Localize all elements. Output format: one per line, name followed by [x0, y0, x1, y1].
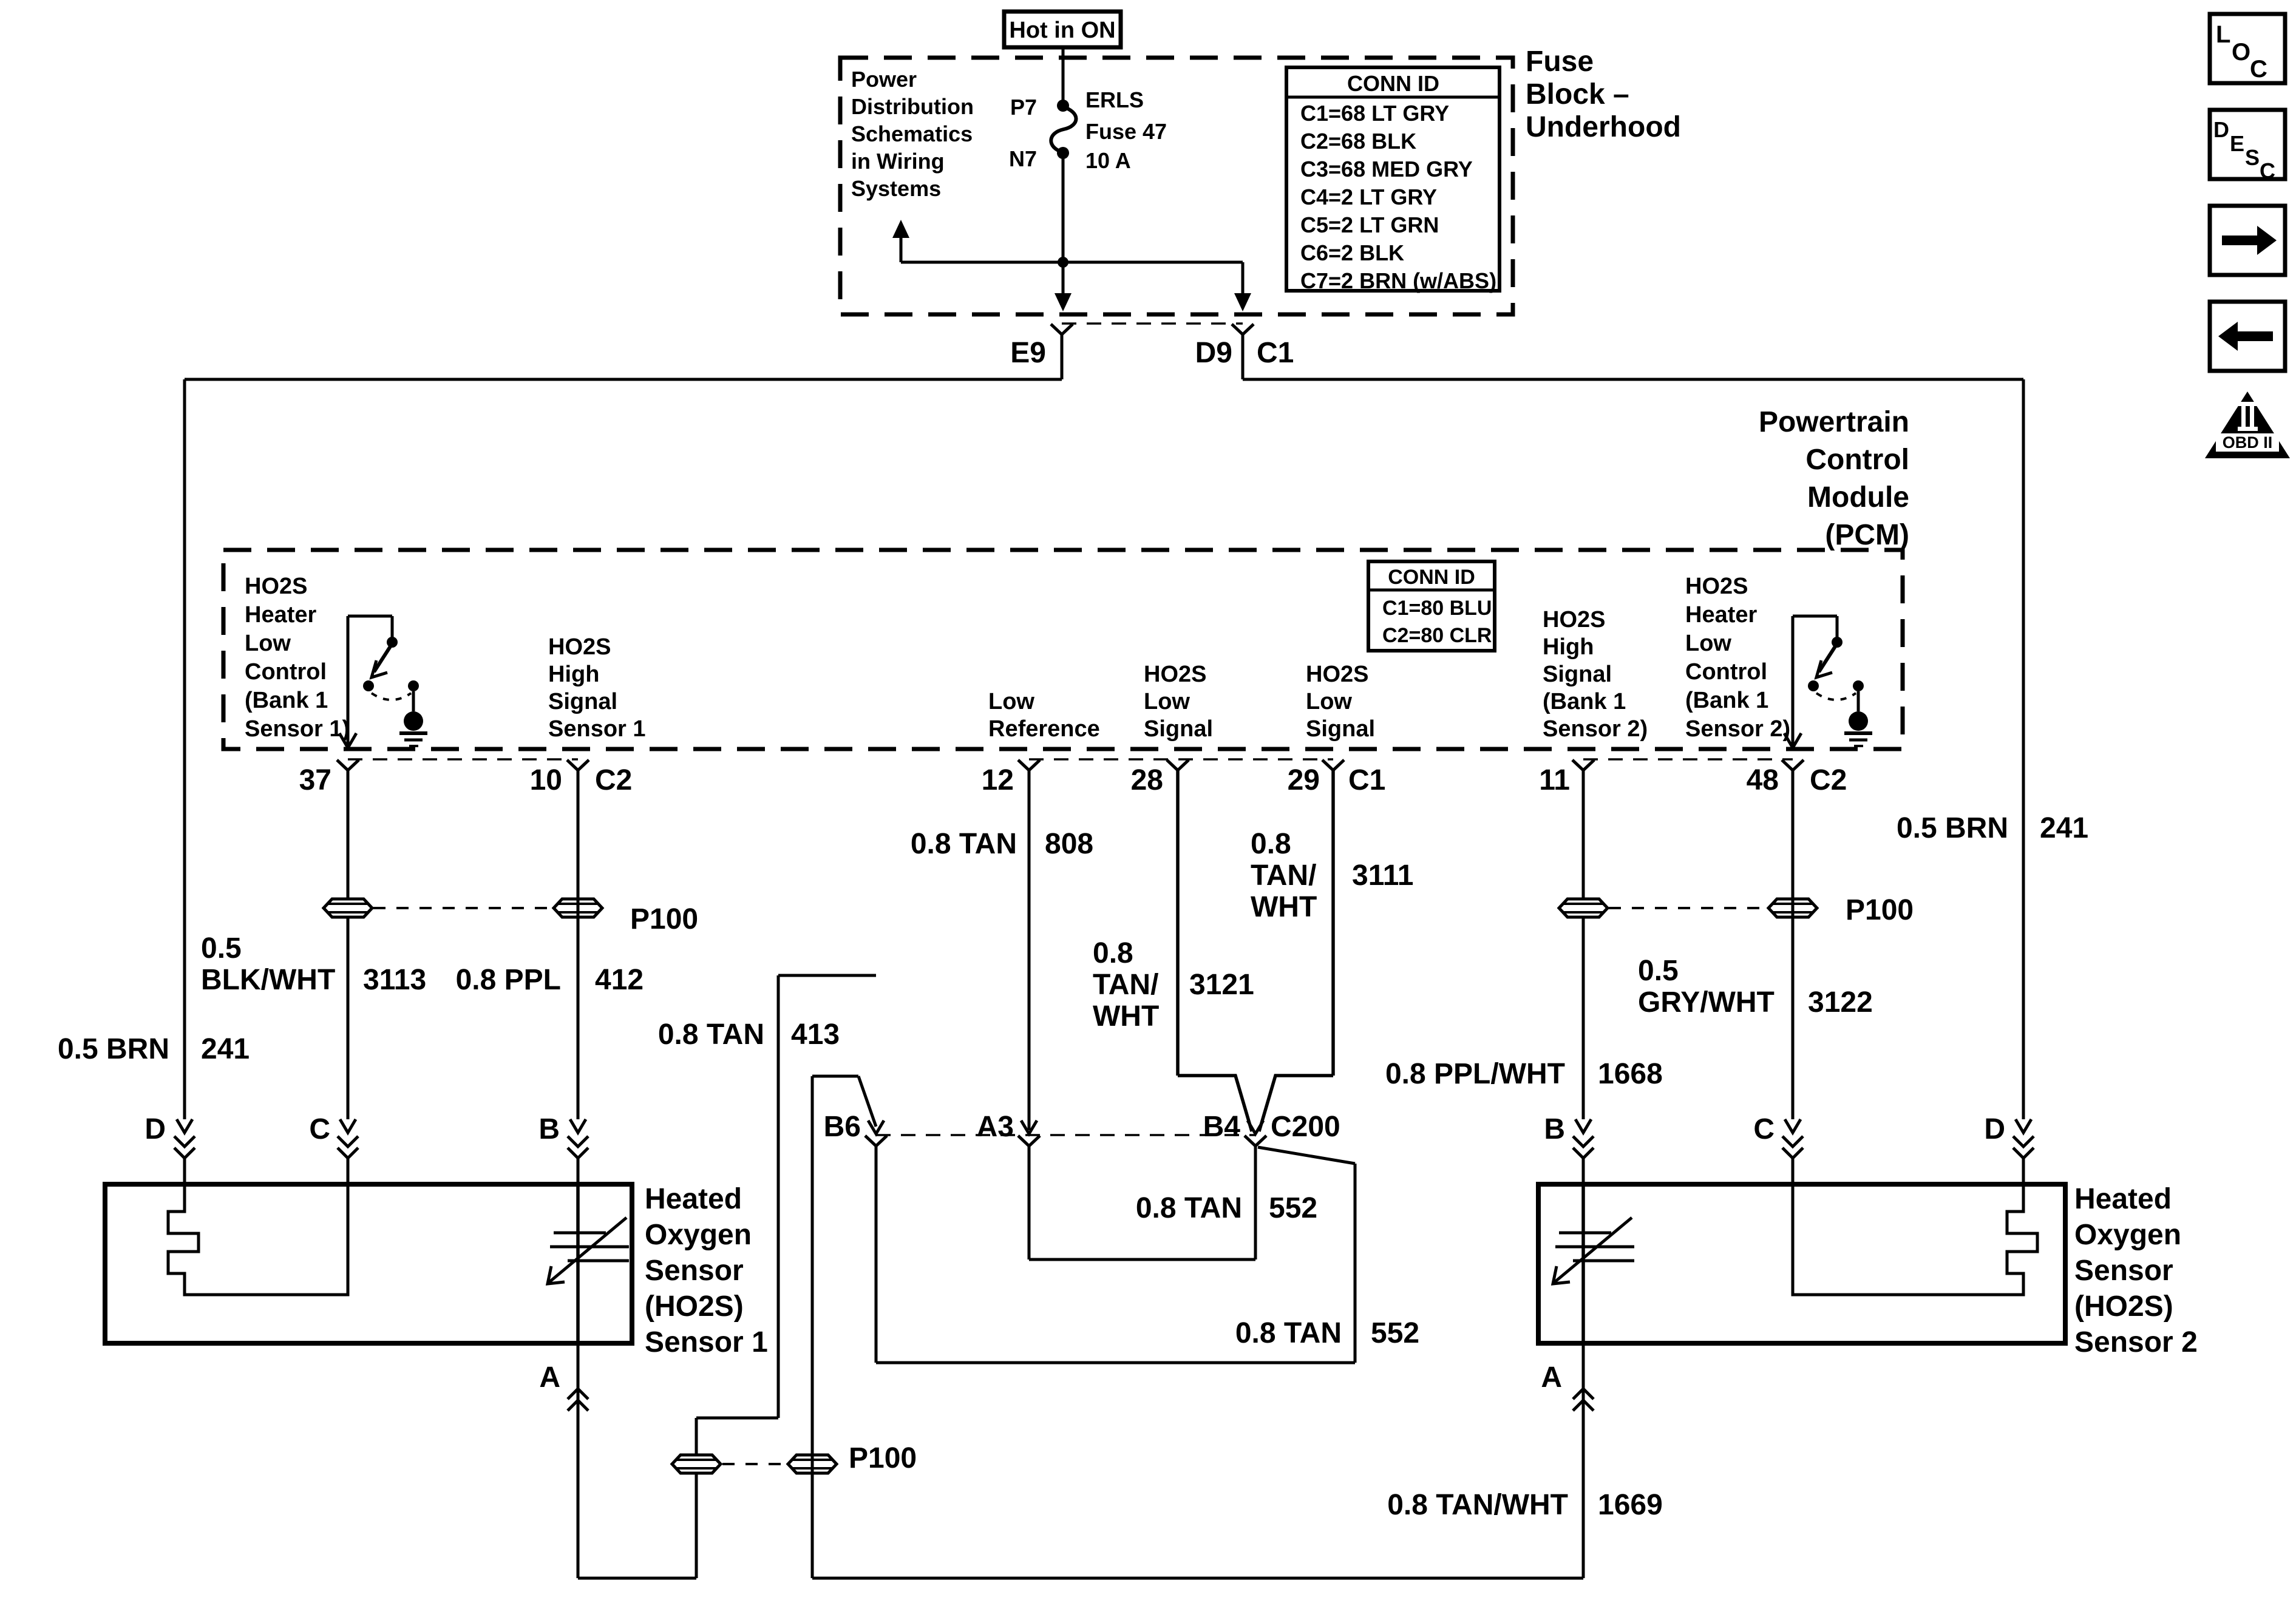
svg-text:B4: B4: [1203, 1111, 1241, 1143]
svg-text:(Bank 1: (Bank 1: [1685, 688, 1768, 713]
svg-text:3113: 3113: [363, 964, 426, 996]
svg-text:HO2S: HO2S: [245, 574, 307, 599]
svg-text:Sensor 1: Sensor 1: [645, 1326, 768, 1358]
svg-text:O: O: [2232, 39, 2250, 66]
svg-text:0.8 TAN/WHT: 0.8 TAN/WHT: [1387, 1489, 1568, 1521]
svg-text:B6: B6: [824, 1111, 861, 1143]
svg-text:Block –: Block –: [1526, 78, 1629, 110]
svg-text:S: S: [2245, 145, 2260, 170]
svg-text:Control: Control: [245, 659, 327, 685]
svg-text:37: 37: [299, 764, 331, 796]
svg-text:P100: P100: [849, 1442, 917, 1474]
svg-text:C1: C1: [1257, 337, 1294, 369]
svg-text:Control: Control: [1805, 444, 1909, 476]
svg-text:C: C: [1753, 1113, 1775, 1145]
svg-text:HO2S: HO2S: [1543, 607, 1605, 632]
svg-text:D9: D9: [1195, 337, 1232, 369]
svg-text:C7=2 BRN (w/ABS): C7=2 BRN (w/ABS): [1300, 268, 1496, 293]
svg-text:48: 48: [1747, 764, 1779, 796]
svg-text:0.5 BRN: 0.5 BRN: [1897, 812, 2008, 844]
svg-text:Reference: Reference: [988, 716, 1100, 742]
svg-text:0.5: 0.5: [1638, 955, 1679, 987]
svg-text:Underhood: Underhood: [1526, 111, 1681, 143]
svg-text:1668: 1668: [1598, 1058, 1663, 1090]
svg-text:0.8 TAN: 0.8 TAN: [1136, 1192, 1242, 1224]
svg-text:C2=80 CLR: C2=80 CLR: [1382, 624, 1492, 647]
svg-text:10 A: 10 A: [1085, 148, 1131, 173]
svg-text:Signal: Signal: [1306, 716, 1375, 742]
svg-text:Sensor: Sensor: [645, 1255, 744, 1287]
svg-text:E: E: [2230, 131, 2244, 156]
svg-text:28: 28: [1131, 764, 1163, 796]
svg-text:552: 552: [1269, 1192, 1317, 1224]
svg-text:HO2S: HO2S: [1144, 662, 1206, 687]
svg-text:TAN/: TAN/: [1251, 859, 1316, 892]
svg-text:0.5 BRN: 0.5 BRN: [58, 1033, 169, 1065]
svg-text:Fuse: Fuse: [1526, 46, 1594, 78]
svg-text:552: 552: [1371, 1317, 1419, 1349]
svg-text:3121: 3121: [1189, 969, 1254, 1001]
svg-text:C: C: [2260, 158, 2275, 183]
svg-text:413: 413: [791, 1019, 840, 1051]
svg-text:BLK/WHT: BLK/WHT: [201, 964, 335, 996]
svg-text:D: D: [1984, 1113, 2005, 1145]
svg-text:1669: 1669: [1598, 1489, 1663, 1521]
svg-text:GRY/WHT: GRY/WHT: [1638, 986, 1775, 1019]
svg-text:Heater: Heater: [1685, 602, 1757, 628]
svg-text:HO2S: HO2S: [1306, 662, 1368, 687]
svg-text:3111: 3111: [1352, 859, 1413, 892]
svg-text:808: 808: [1045, 828, 1093, 860]
svg-text:0.8 TAN: 0.8 TAN: [911, 828, 1017, 860]
svg-text:29: 29: [1288, 764, 1320, 796]
svg-text:12: 12: [982, 764, 1014, 796]
svg-text:Control: Control: [1685, 659, 1767, 685]
svg-text:E9: E9: [1010, 337, 1046, 369]
svg-text:D: D: [2213, 117, 2229, 142]
svg-text:A: A: [539, 1361, 560, 1394]
svg-text:Sensor 2): Sensor 2): [1685, 716, 1790, 742]
svg-text:Sensor 2: Sensor 2: [2074, 1326, 2198, 1358]
svg-text:10: 10: [530, 764, 562, 796]
svg-text:Low: Low: [988, 689, 1034, 714]
svg-text:(HO2S): (HO2S): [2074, 1290, 2173, 1323]
svg-text:Oxygen: Oxygen: [645, 1219, 752, 1251]
svg-text:Fuse 47: Fuse 47: [1085, 119, 1167, 144]
svg-text:0.8: 0.8: [1251, 828, 1291, 860]
svg-text:C3=68 MED GRY: C3=68 MED GRY: [1300, 157, 1473, 181]
svg-text:0.5: 0.5: [201, 932, 242, 964]
svg-text:CONN ID: CONN ID: [1347, 71, 1439, 96]
svg-text:High: High: [548, 662, 599, 687]
svg-text:C: C: [309, 1113, 330, 1145]
svg-text:Low: Low: [1685, 631, 1731, 656]
svg-text:Schematics: Schematics: [851, 121, 973, 146]
svg-text:Low: Low: [245, 631, 291, 656]
svg-text:C1=80 BLU: C1=80 BLU: [1382, 597, 1492, 620]
svg-text:412: 412: [595, 964, 644, 996]
svg-text:C200: C200: [1271, 1111, 1340, 1143]
svg-text:C5=2 LT GRN: C5=2 LT GRN: [1300, 212, 1439, 237]
svg-text:3122: 3122: [1808, 986, 1873, 1019]
svg-text:Signal: Signal: [1543, 662, 1612, 687]
svg-text:0.8 PPL: 0.8 PPL: [456, 964, 561, 996]
svg-text:Distribution: Distribution: [851, 94, 974, 119]
svg-text:Powertrain: Powertrain: [1759, 406, 1909, 438]
svg-text:0.8: 0.8: [1093, 937, 1133, 969]
svg-text:(Bank 1: (Bank 1: [1543, 689, 1626, 714]
svg-text:Sensor 2): Sensor 2): [1543, 716, 1648, 742]
svg-text:P100: P100: [1846, 894, 1914, 926]
svg-text:in Wiring: in Wiring: [851, 149, 945, 174]
svg-text:C1=68 LT GRY: C1=68 LT GRY: [1300, 101, 1449, 126]
svg-text:C2: C2: [1810, 764, 1847, 796]
svg-text:Sensor: Sensor: [2074, 1255, 2173, 1287]
svg-text:(Bank 1: (Bank 1: [245, 688, 328, 713]
svg-text:OBD II: OBD II: [2223, 433, 2273, 452]
svg-text:WHT: WHT: [1251, 891, 1317, 923]
svg-text:Hot in ON: Hot in ON: [1009, 18, 1115, 43]
svg-text:Heater: Heater: [245, 602, 316, 628]
svg-text:C1: C1: [1348, 764, 1385, 796]
svg-text:Low: Low: [1306, 689, 1352, 714]
svg-text:Sensor 1): Sensor 1): [245, 716, 350, 742]
svg-text:P7: P7: [1010, 95, 1037, 120]
svg-text:Module: Module: [1807, 481, 1909, 514]
svg-text:11: 11: [1539, 764, 1570, 796]
svg-text:L: L: [2216, 21, 2230, 48]
svg-text:Heated: Heated: [645, 1183, 742, 1215]
svg-text:Signal: Signal: [1144, 716, 1213, 742]
svg-text:HO2S: HO2S: [1685, 574, 1748, 599]
svg-text:HO2S: HO2S: [548, 634, 611, 660]
svg-text:Power: Power: [851, 67, 917, 92]
svg-text:Systems: Systems: [851, 176, 941, 201]
svg-text:B: B: [538, 1113, 560, 1145]
svg-text:TAN/: TAN/: [1093, 969, 1158, 1001]
svg-text:Heated: Heated: [2074, 1183, 2172, 1215]
svg-text:P100: P100: [630, 903, 698, 935]
svg-text:C2: C2: [595, 764, 632, 796]
svg-text:Oxygen: Oxygen: [2074, 1219, 2181, 1251]
svg-text:A: A: [1541, 1361, 1562, 1394]
svg-text:N7: N7: [1009, 146, 1037, 171]
svg-text:CONN ID: CONN ID: [1388, 566, 1475, 589]
svg-text:Low: Low: [1144, 689, 1190, 714]
svg-text:241: 241: [2040, 812, 2088, 844]
svg-text:0.8 TAN: 0.8 TAN: [1235, 1317, 1342, 1349]
svg-text:ERLS: ERLS: [1085, 87, 1144, 112]
svg-text:(PCM): (PCM): [1825, 519, 1909, 551]
svg-text:WHT: WHT: [1093, 1000, 1159, 1032]
svg-text:C: C: [2250, 56, 2267, 83]
svg-text:B: B: [1544, 1113, 1565, 1145]
svg-text:C2=68 BLK: C2=68 BLK: [1300, 129, 1416, 154]
svg-text:0.8 PPL/WHT: 0.8 PPL/WHT: [1385, 1058, 1565, 1090]
svg-text:(HO2S): (HO2S): [645, 1290, 744, 1323]
svg-text:241: 241: [201, 1033, 250, 1065]
svg-text:A3: A3: [977, 1111, 1014, 1143]
svg-text:0.8 TAN: 0.8 TAN: [658, 1019, 764, 1051]
svg-text:Sensor 1: Sensor 1: [548, 716, 646, 742]
svg-text:C4=2 LT GRY: C4=2 LT GRY: [1300, 185, 1437, 209]
svg-text:High: High: [1543, 634, 1594, 660]
svg-text:D: D: [144, 1113, 166, 1145]
svg-text:Signal: Signal: [548, 689, 617, 714]
svg-text:C6=2 BLK: C6=2 BLK: [1300, 240, 1404, 265]
